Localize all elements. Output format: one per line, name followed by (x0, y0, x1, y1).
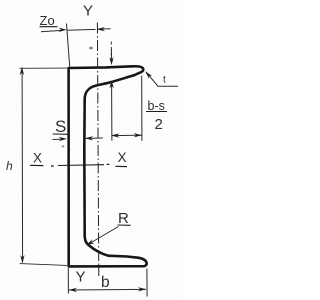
svg-text:b-s: b-s (148, 99, 165, 113)
h top arrowhead (20, 67, 24, 75)
Zo right arrow (98, 28, 111, 30)
h top extension line (20, 67, 68, 69)
svg-text:R: R (118, 210, 129, 227)
t leader (146, 72, 178, 86)
X axis main line (58, 164, 104, 167)
channel section outline (69, 66, 147, 266)
svg-text:b: b (101, 274, 110, 291)
Zo underline (40, 26, 58, 28)
svg-text:S: S (55, 117, 66, 136)
t thickness up arrow / b-s left extension (111, 86, 113, 141)
Y axis (dash-dot) (97, 23, 98, 277)
R underline (118, 224, 131, 226)
X axis dot left (51, 165, 54, 167)
scan speck 2 (62, 145, 65, 147)
R leader arrow (90, 227, 119, 244)
(b-s)/2 dimension line (111, 134, 141, 136)
svg-text:2: 2 (155, 116, 163, 133)
Zo dimension line (67, 28, 95, 31)
(b-s)/2 right arrowhead (134, 133, 142, 137)
h bottom extension line (20, 264, 67, 266)
svg-text:Y: Y (83, 2, 93, 19)
b left arrowhead (69, 288, 77, 292)
svg-text:t: t (163, 74, 166, 85)
svg-text:X: X (118, 150, 127, 165)
b-s right extension (141, 76, 143, 141)
fraction bar (146, 111, 167, 113)
S right arrow (85, 137, 103, 139)
h dimension line (21, 68, 24, 263)
svg-text:Y: Y (76, 269, 86, 286)
svg-text:Zo: Zo (40, 13, 55, 28)
h bottom arrowhead (20, 255, 24, 263)
t thickness down arrow (110, 42, 112, 61)
b dimension line (69, 288, 146, 291)
svg-text:h: h (6, 159, 13, 173)
S left arrow (53, 138, 63, 140)
X axis left underline (30, 164, 44, 166)
b right arrowhead (138, 287, 146, 291)
S underline (53, 133, 69, 135)
b right extension line (146, 269, 148, 297)
X axis dot right (107, 163, 110, 165)
svg-text:X: X (33, 150, 42, 165)
Zo extension line (web face up) (67, 24, 70, 67)
X axis right underline (116, 165, 128, 167)
Zo leader arrow (41, 30, 62, 31)
scan speck (89, 47, 93, 50)
(b-s)/2 left arrowhead (111, 133, 119, 137)
b left extension line (67, 268, 69, 294)
